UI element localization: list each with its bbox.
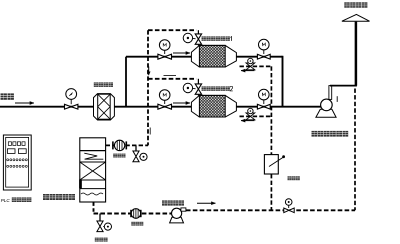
- wire flow arrow desorption unit2: [241, 120, 255, 122]
- wire flow arrow unit1 inlet: [173, 52, 190, 54]
- wire hot-air supply line unit2: [148, 78, 196, 80]
- valve DV1 desorption unit1: [246, 63, 255, 66]
- filter unit (pretreatment): [94, 94, 115, 120]
- actuator A2 vent valve unit2: [183, 83, 192, 92]
- node waste gas inlet label: [1, 93, 7, 99]
- wire main inlet pipe: [0, 106, 321, 108]
- label cooling air valve: [95, 238, 99, 242]
- gauge M on V1: [164, 50, 166, 54]
- wire tower top outlet dashed: [106, 144, 148, 146]
- valve V2 outlet unit1: [257, 54, 263, 59]
- valve V1 inlet unit1: [158, 54, 165, 59]
- valve CV cooling air makeup: [99, 214, 101, 222]
- valve VV1 vent unit1: [197, 30, 199, 34]
- valve TV tower-top cold air valve: [135, 145, 137, 150]
- wire tower drain stub dashed: [93, 202, 95, 213]
- wire fan outlet top pipe: [330, 85, 357, 87]
- label adsorption box 1: [202, 36, 206, 40]
- wire damper riser lower dashed: [270, 174, 272, 210]
- svg-text:PLC: PLC: [1, 198, 11, 203]
- wire chimney riser: [355, 22, 358, 86]
- wire desorption return unit2 dashed: [240, 115, 272, 117]
- valve VV2 vent unit2: [197, 79, 199, 84]
- adsorption box 1 (activated carbon): [191, 45, 236, 67]
- label high altitude discharge: [344, 2, 349, 7]
- wire small tick line: [164, 75, 177, 77]
- wire bottom pipe right dashed: [186, 209, 355, 211]
- label adsorption box 2: [202, 86, 206, 90]
- wire fresh air riser dashed: [354, 89, 356, 211]
- gauge on V0: [70, 99, 72, 104]
- chimney rain cap: [342, 14, 370, 21]
- label main suction fan: [312, 131, 318, 137]
- fan F1 main suction fan: [316, 109, 336, 117]
- PLC control cabinet: [3, 135, 31, 190]
- valve V4 outlet unit2: [257, 104, 263, 109]
- wire flow arrow desorption unit1: [241, 70, 255, 72]
- gauge M on V4: [263, 100, 265, 104]
- wire desorption riser dashed: [147, 30, 149, 145]
- label filter unit: [94, 82, 99, 87]
- wire inlet flow arrow: [15, 102, 34, 104]
- valve V0 inlet: [65, 104, 72, 109]
- actuator A1 vent valve unit1: [183, 33, 192, 42]
- flame arrestor FA2 (bottom): [131, 209, 141, 219]
- wire flow arrow unit2 inlet: [173, 102, 190, 104]
- wire flow arrow after fan F2: [197, 202, 216, 204]
- catalytic combustion bed tower: [80, 138, 106, 202]
- fan F2 desorption fan: [170, 217, 184, 223]
- wire flow arrow down on riser: [148, 67, 150, 73]
- wire bottom pipe left dashed: [94, 213, 172, 215]
- gauge M on V2: [263, 50, 265, 54]
- wire damper riser upper dashed: [270, 66, 272, 154]
- wire riser to branch1: [125, 57, 127, 108]
- wire branch1 pipe: [126, 56, 192, 58]
- label desorption fan: [162, 200, 167, 205]
- valve V3 inlet unit2: [158, 104, 165, 109]
- label catalytic combustion bed: [43, 194, 49, 200]
- wire hot-air supply line unit1: [148, 29, 196, 31]
- valve DV2 desorption unit2: [246, 113, 255, 116]
- flame arrestor FA1 (top): [114, 140, 124, 150]
- wire unit1 outlet drop: [282, 56, 284, 107]
- label damper: [288, 176, 292, 180]
- wire riser lower tick: [149, 128, 151, 135]
- label flame arrestor FA2: [131, 222, 135, 226]
- damper (control valve) D1: [264, 155, 278, 174]
- valve FV fresh air: [284, 208, 289, 213]
- gauge M on V3: [164, 100, 166, 104]
- label flame arrestor FA1: [113, 154, 117, 158]
- wire unit1 outlet pipe: [236, 56, 282, 58]
- wire fan tick: [336, 96, 338, 102]
- wire desorption return unit1 dashed: [240, 65, 272, 67]
- adsorption box 2 (activated carbon): [191, 95, 236, 117]
